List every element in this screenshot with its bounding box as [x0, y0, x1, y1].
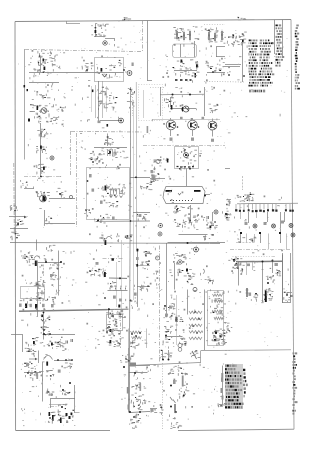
junction — [194, 311, 196, 313]
coil L1 — [189, 311, 202, 314]
component labels — [98, 269, 107, 277]
electrolytic C10 body — [105, 186, 107, 191]
wire — [29, 82, 59, 84]
resistor R20 body — [165, 314, 168, 317]
junction — [243, 75, 245, 77]
component labels — [144, 252, 151, 255]
wire — [170, 130, 172, 136]
junction — [139, 332, 141, 334]
wire — [129, 372, 148, 374]
capacitor C18 body — [247, 264, 250, 267]
component blob — [214, 339, 216, 341]
wire vertical — [238, 263, 240, 286]
wire stub — [254, 234, 256, 243]
wire — [96, 220, 150, 222]
component blob — [110, 329, 112, 332]
wire — [150, 178, 165, 180]
wire — [200, 351, 202, 363]
bus wire horizontal B+ — [10, 242, 220, 245]
component labels — [207, 277, 213, 284]
component blob — [71, 413, 73, 416]
resistor R25 body — [134, 293, 137, 296]
resistor R6 — [221, 30, 223, 42]
test point TP6 — [193, 288, 197, 292]
electrolytic C8 body — [44, 197, 46, 202]
wire — [165, 336, 183, 338]
detail marks — [230, 196, 282, 232]
diode D3 — [47, 390, 51, 393]
wire stub R-C — [40, 58, 42, 72]
parts list column B — [260, 40, 275, 85]
resistor R2 — [183, 31, 185, 42]
electrolytic C21 — [265, 291, 267, 303]
junction — [112, 315, 114, 317]
transistor Q6 — [182, 106, 189, 112]
wire — [216, 47, 218, 57]
component blob — [107, 124, 109, 127]
coil L6 — [213, 294, 223, 296]
delay line DL1 — [163, 187, 205, 204]
coil L8 — [213, 310, 223, 313]
wire — [49, 198, 75, 200]
capacitor C1 body — [43, 59, 45, 62]
coil L3 — [189, 324, 202, 327]
slash marks — [170, 397, 176, 403]
component labels — [37, 164, 47, 174]
transistor Q7 — [41, 108, 47, 114]
component blob — [41, 315, 43, 318]
wire — [174, 70, 197, 72]
fuse labels — [131, 383, 141, 389]
wire connector row — [108, 290, 128, 292]
junction — [198, 126, 200, 128]
component labels — [104, 137, 114, 146]
page edge text right — [295, 25, 301, 88]
component labels — [56, 191, 66, 197]
capacitor C31 — [66, 341, 67, 344]
capacitor body — [211, 139, 214, 142]
resistor R4 — [208, 31, 210, 42]
terminal E3 — [70, 196, 73, 199]
bus heavy wire — [236, 260, 283, 263]
parts list column C — [276, 25, 285, 65]
junction — [165, 335, 167, 337]
wire vertical — [143, 90, 145, 118]
IF module parts — [101, 184, 126, 198]
wire vertical — [91, 86, 93, 112]
wire bracket — [216, 46, 225, 48]
component labels — [213, 307, 227, 323]
wire AGC line — [29, 72, 124, 74]
shield box 3 left edge — [70, 131, 72, 176]
dashed wire — [242, 176, 244, 190]
capacitor C16 — [211, 224, 214, 225]
junction — [108, 326, 110, 328]
capacitor C11 body — [170, 138, 173, 141]
junction — [43, 333, 45, 335]
detail marks — [28, 50, 126, 78]
box IF module — [87, 168, 130, 220]
electrolytic C22 — [176, 317, 178, 322]
component labels — [130, 341, 147, 350]
junction — [179, 168, 181, 170]
junction — [196, 332, 198, 334]
wire — [225, 64, 241, 66]
bandswitch parts B — [207, 30, 226, 44]
bus heavy ground bus extension — [108, 308, 129, 310]
component cluster with labels — [38, 53, 56, 65]
capacitor C9 body — [98, 121, 101, 124]
resistor R14 body — [152, 176, 154, 179]
bandswitch parts — [173, 27, 198, 47]
connector row pins — [110, 286, 126, 289]
tuner parts — [98, 60, 123, 78]
capacitor C42 body — [221, 378, 223, 382]
wire stub — [75, 412, 80, 414]
component labels — [108, 281, 116, 287]
junction — [92, 161, 94, 163]
junction — [49, 417, 51, 419]
junction — [45, 261, 47, 263]
terminal E4 — [194, 247, 199, 252]
wire — [284, 212, 286, 222]
wire — [136, 365, 150, 367]
detail marks — [98, 92, 114, 111]
box right edge — [282, 253, 284, 303]
resistor R40 body — [153, 177, 155, 180]
terminal E5 — [156, 160, 160, 164]
component labels — [21, 180, 28, 188]
junction — [130, 300, 132, 302]
wire — [38, 262, 62, 264]
detail marks — [169, 88, 211, 113]
detail marks — [232, 113, 281, 117]
junction — [106, 331, 108, 333]
resistor R26 body — [50, 274, 52, 277]
arrowhead — [24, 216, 27, 219]
resistor R13 body — [152, 175, 155, 178]
resistor R34 body — [128, 405, 130, 410]
junction — [57, 359, 59, 361]
resistor R36 body — [174, 404, 176, 413]
border frame top — [15, 20, 291, 22]
junction — [286, 294, 288, 296]
wire — [94, 147, 127, 149]
junction — [36, 283, 38, 285]
dotted wire top — [204, 24, 225, 26]
component labels — [151, 173, 160, 181]
component labels — [89, 153, 103, 163]
dotted box edge — [162, 363, 164, 430]
shield box 2 top edge — [71, 131, 142, 134]
test point TP5 — [178, 260, 182, 264]
component labels — [108, 338, 122, 347]
dash-dot stub — [50, 406, 58, 408]
resistor R24 body — [121, 310, 124, 313]
component labels — [134, 404, 143, 410]
transistor Q2 — [188, 120, 198, 130]
wire — [11, 334, 23, 336]
wire — [137, 286, 150, 288]
diode D2 body — [236, 263, 238, 265]
component labels — [164, 314, 176, 320]
box small module — [21, 287, 45, 299]
channel selector contacts — [213, 329, 227, 346]
component labels — [275, 269, 281, 276]
scan mark — [122, 17, 131, 20]
wire vertical — [108, 308, 110, 318]
resistor R5 — [214, 32, 216, 43]
detail marks — [30, 55, 61, 95]
junction — [71, 359, 73, 361]
junction — [198, 318, 200, 320]
test point TP7 — [158, 232, 162, 236]
wire vertical — [176, 295, 178, 345]
wire vertical — [50, 399, 52, 408]
component blob — [28, 119, 30, 122]
junction — [131, 333, 133, 335]
junction — [86, 69, 88, 71]
junction — [133, 416, 135, 418]
wire vertical — [222, 366, 224, 406]
wire — [225, 66, 240, 68]
resistor R12 body — [139, 214, 141, 217]
resistor R1 — [176, 30, 178, 41]
junction — [137, 249, 139, 251]
wire vertical — [42, 362, 44, 402]
component blob — [66, 413, 68, 416]
component labels — [46, 371, 54, 377]
coil L5 — [189, 337, 202, 340]
shield dash-dot vertical — [159, 246, 161, 363]
junction — [127, 235, 129, 237]
dash-dot wire — [103, 258, 125, 260]
resistor R18 body — [249, 293, 252, 296]
resistor R33 body — [127, 387, 129, 394]
wire vertical — [272, 261, 274, 274]
resistor R19 body — [169, 306, 172, 309]
junction — [65, 359, 67, 361]
component labels — [41, 327, 50, 336]
capacitor C41 body — [202, 117, 205, 119]
wire stub — [162, 350, 164, 360]
shield box right edge — [142, 21, 144, 53]
test point TP4 — [214, 210, 218, 214]
capacitor body — [191, 138, 194, 141]
wire vertical — [40, 123, 42, 177]
component labels — [180, 338, 188, 344]
bus wire segment — [109, 277, 127, 279]
junction — [61, 406, 63, 408]
electrolytic C27 body — [35, 261, 37, 267]
antenna terminal parts — [228, 32, 247, 46]
wire — [114, 39, 116, 41]
detail marks — [225, 201, 231, 220]
box tuner module — [95, 58, 124, 82]
junction — [69, 382, 71, 384]
component labels — [226, 326, 232, 334]
component labels — [109, 202, 119, 208]
wire — [24, 188, 34, 190]
detail marks — [85, 234, 150, 341]
resistor R16 body — [264, 222, 267, 225]
audio driver parts — [36, 192, 50, 202]
wire hop — [106, 236, 112, 239]
transistor Q4 audio output — [40, 195, 47, 202]
wire vertical right of box — [147, 21, 149, 82]
test point TP2 — [50, 156, 54, 160]
junction — [89, 270, 91, 272]
junction — [52, 419, 54, 421]
dashed wire — [43, 265, 45, 277]
transformer T3 body — [130, 363, 137, 367]
capacitor C28 body — [19, 304, 22, 307]
junction — [189, 168, 191, 170]
bus taps — [175, 79, 192, 81]
detail marks — [102, 151, 128, 169]
resistor R29 body — [51, 304, 54, 307]
electrolytic C30 body — [35, 304, 37, 309]
connector pin P3 — [279, 232, 281, 234]
transistor Q8 body — [101, 68, 103, 72]
wire vertical bundle — [133, 100, 135, 300]
terminal E1 — [127, 71, 132, 76]
wire stub — [280, 233, 282, 243]
wire — [24, 372, 41, 374]
IF transformer T2 — [110, 189, 123, 198]
detail marks — [174, 206, 202, 229]
detector box bottom pads — [177, 166, 195, 169]
component blob — [17, 223, 19, 226]
capacitor C15 — [207, 216, 208, 219]
lamp DS1 — [253, 224, 257, 228]
edge connector parts — [226, 199, 232, 220]
lamp DS2 — [272, 224, 276, 228]
junction — [130, 220, 132, 222]
detail marks — [163, 61, 225, 92]
border frame bottom-left — [16, 429, 110, 431]
wire vertical — [174, 263, 176, 290]
resistor R32 body — [58, 370, 61, 373]
tone control parts — [26, 348, 36, 355]
diode D1 body — [233, 259, 235, 261]
component labels — [44, 316, 50, 324]
component blob — [242, 40, 244, 43]
wire — [170, 118, 172, 120]
coil L2 — [189, 318, 202, 321]
component blob — [233, 35, 235, 38]
junction — [43, 329, 45, 331]
bus wire — [160, 93, 204, 96]
component labels — [159, 350, 172, 358]
junction — [134, 372, 136, 374]
connector pin P2 — [259, 232, 261, 234]
junction — [175, 411, 177, 413]
junction — [123, 366, 125, 368]
detail marks — [150, 118, 230, 226]
component labels — [190, 351, 200, 358]
electrolytic C3 body — [37, 106, 39, 111]
junction — [135, 335, 137, 337]
junction — [189, 94, 191, 96]
capacitor C4 body — [132, 63, 134, 67]
component blob — [181, 60, 183, 63]
IF strip shield dash-dot — [143, 145, 225, 147]
wire — [130, 177, 150, 179]
component labels — [172, 417, 182, 428]
notes text block edge — [243, 370, 248, 396]
junction — [267, 282, 269, 284]
detail marks — [91, 21, 126, 47]
wire vertical — [187, 290, 189, 315]
oscillator parts column — [98, 87, 118, 110]
border frame bottom-right — [178, 429, 294, 430]
detail marks — [21, 250, 75, 346]
test point TP3 — [159, 224, 163, 228]
component labels — [37, 291, 44, 299]
speaker terminal parts — [151, 405, 164, 415]
wire bottom boundary — [129, 363, 201, 366]
wire vertical — [74, 385, 76, 413]
wire — [179, 234, 208, 236]
component blob — [24, 85, 26, 87]
wire — [94, 36, 105, 38]
shield dash-dot horizontal — [230, 249, 291, 251]
dashed wire — [236, 242, 254, 244]
junction — [176, 209, 178, 211]
component labels — [140, 286, 150, 292]
capacitor C7 body — [40, 146, 42, 149]
wire vertical — [282, 20, 284, 57]
junction — [189, 220, 191, 222]
component blob — [27, 89, 29, 91]
wire — [49, 404, 67, 406]
component labels — [267, 276, 275, 283]
component blob — [51, 343, 53, 346]
junction — [123, 69, 125, 71]
shield box bottom edge — [24, 176, 59, 178]
junction — [228, 74, 230, 76]
component blob — [118, 305, 120, 308]
component labels — [284, 292, 292, 301]
detail marks — [95, 316, 125, 349]
dashed wire — [225, 350, 230, 352]
arrow 2 — [29, 358, 38, 360]
detector box parts — [177, 148, 197, 169]
component labels — [163, 339, 170, 345]
junction — [40, 176, 42, 178]
wire — [170, 108, 196, 110]
junction — [192, 325, 194, 327]
dashed border bit — [180, 430, 195, 432]
component labels — [47, 245, 56, 252]
detail marks — [150, 248, 209, 349]
wire vertical — [38, 351, 40, 364]
wire stub — [168, 350, 170, 360]
shield box top edge — [25, 50, 143, 52]
capacitor body — [170, 138, 173, 141]
component labels — [108, 321, 118, 332]
notes caption — [249, 90, 265, 93]
component blob — [95, 30, 97, 33]
page edge text right lower — [293, 353, 298, 413]
resistor R31 body — [36, 375, 38, 379]
detail marks — [164, 366, 189, 429]
volume control labels — [174, 253, 187, 264]
component blob — [136, 264, 138, 267]
electrolytic C29 body — [25, 304, 27, 309]
component labels — [131, 422, 139, 429]
